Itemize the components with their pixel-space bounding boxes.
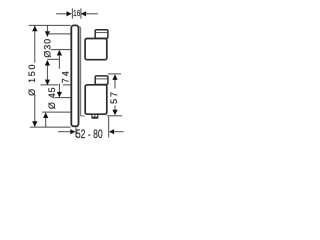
dim 16 left tail (56, 13, 67, 15)
bottom knob small block inner line (96, 78, 107, 80)
safety stop tab window right (95, 115, 97, 117)
top knob small block (95, 30, 108, 39)
dim 16 left arrow (67, 11, 72, 16)
svg-text:74: 74 (61, 69, 71, 83)
knob axis bottom line (55, 97, 71, 99)
dim 57 line lower (114, 106, 116, 111)
dim D30 down arrow tail (46, 25, 48, 31)
dim 74 up arrow (57, 50, 62, 56)
bottom knob main block (85, 85, 107, 114)
dim 74 down arrow (57, 92, 62, 98)
plate (rosette, edge view) (71, 25, 78, 126)
dim 16 right arrow (81, 11, 86, 16)
knob axis top line (51, 49, 71, 51)
svg-text:52 - 80: 52 - 80 (76, 127, 103, 141)
dim D45 arrow tail (46, 65, 48, 80)
dim D150 line lower (34, 95, 36, 127)
dim D45 down arrow (45, 80, 50, 86)
svg-text:Ø 150: Ø 150 (27, 63, 37, 96)
dim 16 left extension line (71, 8, 73, 18)
dim D150 bottom extension line (30, 126, 71, 128)
dim 57 down arrow (112, 110, 117, 116)
dim 16 right tail (86, 13, 98, 15)
dim 74 line upper (58, 55, 60, 69)
svg-text:Ø30: Ø30 (43, 38, 53, 58)
dim 52-80 left arrow (70, 129, 75, 134)
offset stub line (47, 58, 59, 60)
dim D150 bottom arrow (32, 121, 37, 127)
dim 52-80 right tail (114, 131, 124, 133)
dim 57 line upper (114, 80, 116, 89)
dim D45 top bound line seg2 (63, 84, 71, 86)
dim D45 top bound line seg1 (40, 84, 58, 86)
top knob small block inner line (96, 32, 107, 34)
safety stop tab (91, 114, 98, 118)
dim 57 bottom extension line (107, 115, 122, 117)
dim 52-80 right arrow (109, 129, 114, 134)
dim 16 right extension line (80, 8, 82, 18)
dim D30 down arrow (45, 31, 50, 37)
svg-text:57: 57 (109, 90, 119, 104)
dim D150 top arrow (32, 26, 37, 32)
top knob main block (85, 39, 107, 60)
dim 57 up arrow (112, 74, 117, 80)
dim D45 up arrow (at stub) (45, 60, 50, 66)
svg-text:Ø 45: Ø 45 (47, 87, 57, 109)
dim D45 up arrow (43, 112, 48, 118)
safety stop tab window left (93, 115, 95, 117)
dim D150 top extension line (29, 24, 71, 26)
dim 74 line lower (58, 84, 60, 93)
dim 52-80 right extension line (108, 117, 110, 138)
dim D150 line upper (34, 26, 36, 63)
sleeve bottom connector (80, 115, 85, 117)
dim 52-80 left extension line (75, 128, 77, 138)
dim D30 top bound line (49, 33, 71, 35)
dim 52-80 left tail (58, 131, 71, 133)
bottom knob small block (95, 76, 108, 85)
sleeve line (79, 27, 80, 116)
dim D45 up arrow tail (45, 118, 47, 128)
dim 57 top extension line (108, 73, 121, 75)
dim D45 bottom bound line (42, 111, 70, 113)
svg-text:16: 16 (73, 8, 80, 18)
